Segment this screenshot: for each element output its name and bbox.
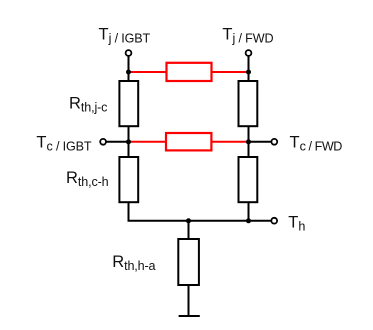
node Tc/FWD terminal: [271, 139, 277, 145]
wire Tj/FWD terminal to Rth,j-c(FWD) top: [248, 56, 250, 81]
wire heatsink rail: [128, 220, 271, 222]
resistor Rth,h-a: [178, 239, 199, 285]
node Th terminal: [271, 218, 277, 224]
wire red coupling top row: [129, 71, 249, 73]
wire Rth,h-a bottom to ground: [188, 285, 190, 316]
wire Rth,j-c bottom to Tc node (FWD column): [248, 126, 250, 157]
wire Tj/IGBT terminal to Rth,j-c top: [128, 56, 130, 81]
ground: [179, 315, 200, 317]
resistor Rth,c-h (FWD side): [239, 157, 258, 202]
resistor Rth,j-c (IGBT side): [119, 81, 138, 126]
wire Rth,c-h bottom to heatsink rail (FWD column): [248, 202, 250, 221]
junction heatsink right: [246, 218, 251, 223]
wire junction to Tc/FWD terminal: [249, 141, 272, 143]
resistor Rth,j-c (FWD side): [239, 81, 258, 126]
coupling resistor (red, top): [167, 63, 212, 81]
resistor Rth,c-h (IGBT side): [119, 157, 138, 202]
wire Tc/IGBT terminal to junction: [106, 141, 128, 143]
wire Rth,j-c bottom to Tc node (IGBT column): [128, 126, 130, 157]
junction Tc/FWD: [246, 139, 251, 144]
junction top-left: [126, 70, 131, 75]
node Tj/FWD terminal: [246, 50, 252, 56]
node Tc/IGBT terminal: [100, 139, 106, 145]
coupling resistor (red, middle): [166, 133, 211, 150]
node Tj/IGBT terminal: [126, 50, 132, 56]
junction Tc/IGBT: [126, 139, 131, 144]
wire Rth,c-h bottom to heatsink rail (IGBT column): [128, 202, 130, 221]
wire red coupling middle row: [129, 141, 249, 143]
junction top-right: [246, 70, 251, 75]
junction heatsink center: [186, 218, 191, 223]
wire heatsink rail to Rth,h-a top: [188, 221, 190, 239]
